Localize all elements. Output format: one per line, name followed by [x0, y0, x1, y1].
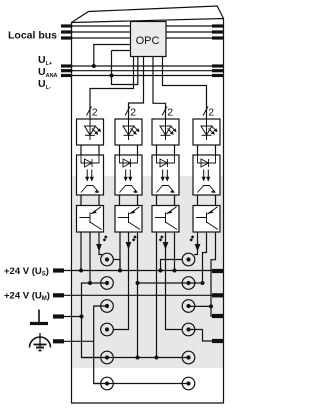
terminal 2.4: [182, 323, 195, 336]
junction UL- to OPC: [110, 74, 114, 78]
wire Q1 middle lead down: [89, 232, 91, 283]
LED indicator D3 box: [152, 119, 179, 145]
optocoupler U2 box: [115, 155, 142, 195]
connector marker ch2 b: [132, 238, 136, 242]
wire UL+ rail: [61, 65, 213, 67]
svg-text:2: 2: [167, 107, 173, 119]
svg-text:2: 2: [208, 107, 214, 119]
optocoupler U1 input diode: [81, 155, 99, 167]
arrow Q4 output: [195, 244, 201, 252]
terminal 1.2: [101, 277, 114, 290]
op-amp OPC controller box U1: [131, 22, 167, 57]
wire Q4 output into terminal 2.1R: [194, 252, 197, 255]
wire +24V US rail: [64, 270, 212, 272]
LED D1 emission arrows: [92, 126, 101, 135]
lead optocoupler to transistor left ch4: [197, 195, 199, 206]
wire UL- rail: [61, 75, 213, 77]
LED D2 symbol: [123, 119, 134, 140]
wire Q3 output to terminal 2.4: [166, 250, 183, 330]
+24V US left connector tick: [53, 268, 64, 272]
wire row5 line: [82, 357, 189, 359]
connector marker ch3 b: [159, 238, 163, 242]
svg-text:2: 2: [130, 107, 136, 119]
wire row6 line: [94, 383, 189, 385]
junction FE rail: [80, 315, 84, 319]
junction Q4 mid to terminal 2.2 line: [201, 281, 205, 285]
UL- left connector tick: [61, 74, 72, 77]
bus-width marker slash channel 2: [125, 107, 130, 116]
optocoupler U3 box: [152, 155, 179, 195]
module body gray zone: [72, 176, 223, 368]
terminal 1.1: [101, 253, 114, 266]
shield left connector tick: [53, 339, 64, 343]
LED D2 emission arrows: [131, 126, 140, 135]
transistor Q1 box: [77, 206, 104, 233]
UL- right connector tick: [212, 74, 224, 77]
wire Q1 output down: [98, 232, 100, 252]
optocoupler U4 light arrows: [202, 170, 211, 182]
wire terminal 1.1 link vertical: [119, 260, 121, 271]
transistor Q3 symbol: [155, 207, 177, 230]
wire Q4 middle lead down: [203, 232, 207, 283]
LED D1 symbol: [85, 119, 96, 140]
junction Q1-US: [79, 269, 83, 273]
UL+ right connector tick: [212, 64, 224, 67]
svg-text:+24 V (US): +24 V (US): [4, 266, 49, 278]
lead optocoupler to transistor right ch3: [174, 195, 176, 206]
junction Q3-row5: [155, 356, 159, 360]
terminal 1.3: [101, 300, 114, 313]
lead optocoupler to transistor left ch3: [156, 195, 158, 206]
lead LED to optocoupler left ch3: [156, 145, 158, 155]
connector marker ch2 a: [133, 235, 137, 239]
local bus wire 3: [61, 37, 213, 39]
LED D4 symbol: [201, 119, 212, 140]
svg-text:+24 V (UM): +24 V (UM): [4, 291, 50, 303]
wire terminal 1.1 link to US: [113, 259, 120, 261]
optocoupler U1 light arrows: [85, 170, 94, 182]
terminal 2.3: [182, 300, 195, 313]
wire Q3 left lead to row5: [156, 232, 158, 358]
local bus left connector tick 2: [61, 30, 72, 33]
wire Q2 output down upper: [128, 232, 130, 250]
arrow Q3 output: [163, 242, 169, 250]
transistor Q4 symbol: [196, 207, 218, 230]
LED indicator D2 box: [115, 119, 142, 145]
wire Q2 output to terminal 1.4: [113, 250, 128, 330]
svg-text:Local bus: Local bus: [8, 30, 57, 42]
module outline 3D top face: [72, 6, 224, 23]
connector marker ch4 b: [189, 238, 193, 242]
wire terminal 3.1 line to rail down to row6: [94, 306, 107, 384]
wire OPC pin2 to channel2: [129, 57, 144, 120]
optocoupler U2 light arrows: [124, 170, 133, 182]
+24V UM left connector tick: [53, 293, 64, 297]
right connector tick row4: [212, 339, 224, 343]
wire terminal 2.4R to right tick: [189, 330, 224, 342]
lead optocoupler to transistor left ch2: [119, 195, 121, 206]
svg-text:2: 2: [92, 107, 98, 119]
optocoupler U1 phototransistor: [81, 186, 99, 194]
UANA left connector tick: [61, 69, 72, 72]
UANA right connector tick: [212, 69, 224, 72]
wire Q2 left lead to US rail: [119, 232, 121, 271]
lead optocoupler to transistor left ch1: [80, 195, 82, 206]
bus-width marker slash channel 4: [203, 107, 208, 116]
ground shield symbol: [30, 333, 51, 351]
+24V UM right connector tick: [212, 293, 224, 297]
local bus wire 1: [61, 25, 213, 27]
lead LED to optocoupler right ch2: [137, 145, 139, 155]
LED indicator D4 box: [193, 119, 220, 145]
junction Q2 right with terminal 2.2 line: [136, 281, 140, 285]
terminal 2.1: [182, 253, 195, 266]
connector marker ch1 a: [104, 235, 108, 239]
wire shield to left rail: [64, 340, 94, 342]
junction Q1 mid to terminal 2.1 line: [88, 281, 92, 285]
terminal 1.4: [101, 323, 114, 336]
junction Q2-US: [118, 269, 122, 273]
wire terminal 3.2R to right: [189, 305, 212, 307]
lead optocoupler to transistor right ch2: [137, 195, 139, 206]
junction Q4 right with terminal 3.2R line: [209, 304, 213, 308]
transistor Q2 symbol: [118, 207, 140, 230]
lead optocoupler to transistor right ch1: [98, 195, 100, 206]
wire Q4 output down: [197, 232, 199, 252]
wire terminal 2.2 row line: [138, 282, 203, 284]
UL+ left connector tick: [61, 64, 72, 67]
terminal 2.6: [182, 377, 195, 390]
wire terminal 2.1 line to left rail down to row5: [82, 283, 108, 358]
wire UL- sense vertical: [111, 51, 113, 76]
connector marker ch3 a: [160, 235, 164, 239]
wire Q2 right lead to row5: [137, 232, 139, 358]
svg-text:OPC: OPC: [136, 35, 160, 47]
module outline front face: [72, 19, 224, 404]
local bus right connector tick 3: [212, 36, 224, 39]
arrow Q2 output: [126, 242, 132, 250]
optocoupler U3 light arrows: [161, 170, 170, 182]
wire Q4 right lead to right tick: [211, 232, 224, 316]
wire OPC pin3 to channel3: [153, 57, 166, 120]
lead LED to optocoupler left ch4: [197, 145, 199, 155]
wire UL- sense horizontal: [112, 50, 131, 52]
lead LED to optocoupler left ch1: [80, 145, 82, 155]
transistor Q2 box: [115, 206, 142, 233]
wire +24V UM rail: [64, 294, 212, 296]
wire UL+ to OPC left side: [94, 45, 131, 67]
wire Q3 output down upper: [165, 232, 167, 250]
terminal 1.5: [101, 351, 114, 364]
lead LED to optocoupler right ch4: [215, 145, 217, 155]
terminal 1.6: [101, 377, 114, 390]
wire Q3 right lead to US rail: [174, 232, 176, 271]
wire FE ground to left rail: [64, 316, 82, 318]
FE ground left connector tick: [53, 314, 64, 318]
wire UANA rail: [61, 70, 213, 72]
wire terminal 1.1R link to US: [161, 260, 183, 271]
optocoupler U4 phototransistor: [198, 186, 216, 194]
arrow Q1 output: [96, 244, 102, 252]
connector marker ch1 b: [103, 238, 107, 242]
bus-width marker slash channel 1: [87, 107, 92, 116]
+24V US right connector tick: [212, 269, 224, 273]
connector marker ch4 a: [191, 235, 195, 239]
local bus left connector tick 1: [61, 24, 72, 27]
optocoupler U1 box: [77, 155, 104, 195]
lead LED to optocoupler left ch2: [119, 145, 121, 155]
junction UL+ to OPC: [92, 64, 96, 68]
wire UL- return to OPC bottom: [112, 57, 138, 85]
local bus right connector tick 1: [212, 24, 224, 27]
local bus right connector tick 2: [212, 30, 224, 33]
svg-text:UL-: UL-: [38, 78, 51, 91]
optocoupler U2 input diode: [120, 155, 138, 167]
LED D3 emission arrows: [168, 126, 177, 135]
transistor Q3 box: [152, 206, 179, 233]
terminal 2.2: [182, 277, 195, 290]
wire OPC pin1 to channel1: [90, 57, 134, 120]
optocoupler U3 input diode: [157, 155, 175, 167]
optocoupler U3 phototransistor: [157, 186, 175, 194]
transistor Q1 symbol: [80, 207, 102, 230]
junction Q3-US: [173, 269, 177, 273]
wire OPC pin4 to channel4: [163, 57, 207, 120]
optocoupler U2 phototransistor: [120, 186, 138, 194]
wire Q1 output into terminal 1.1: [99, 252, 102, 255]
local bus left connector tick 3: [61, 36, 72, 39]
transistor Q4 box: [193, 206, 220, 233]
LED D3 symbol: [160, 119, 171, 140]
LED D4 emission arrows: [209, 126, 218, 135]
optocoupler U4 box: [193, 155, 220, 195]
bus-width marker slash channel 3: [162, 107, 167, 116]
lead optocoupler to transistor right ch4: [215, 195, 217, 206]
optocoupler U4 input diode: [198, 155, 216, 167]
lead LED to optocoupler right ch3: [174, 145, 176, 155]
local bus wire 2: [61, 31, 213, 33]
ground FE symbol: [30, 310, 48, 324]
LED indicator D1 box: [77, 119, 104, 145]
lead LED to optocoupler right ch1: [98, 145, 100, 155]
right connector tick row3: [212, 314, 224, 318]
wire Q1 emitter to US rail: [80, 232, 82, 271]
terminal 2.5: [182, 351, 195, 364]
junction 1.1R-US: [159, 269, 163, 273]
junction Q2-row5: [136, 356, 140, 360]
